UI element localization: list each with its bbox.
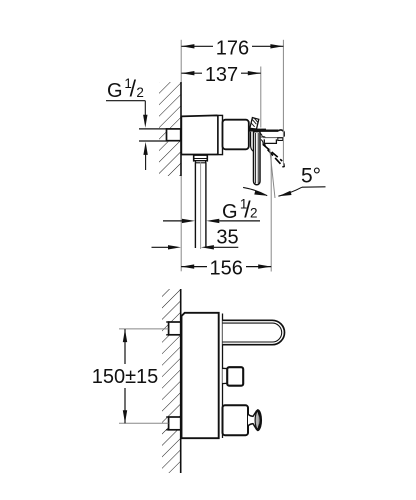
diverter knob [223,367,244,386]
nipple centerline [200,162,202,249]
pipe union fitting at wall [167,129,181,141]
trim ring [218,115,223,154]
lever blade (handle pointing to viewer) [254,132,261,185]
5° tilted line [270,149,275,199]
hose nipple pipes (down) [194,162,196,248]
ext line 176 right [282,40,284,164]
lever pivot bar [249,129,266,132]
G 1/2 label bottom (hose thread) [163,196,260,223]
5° reference line (vertical) / ext. line for 156 [270,155,272,272]
bottom inlet block [166,417,181,430]
wall hatching (top view) [159,82,181,176]
top inlet block [166,322,181,335]
dimension 176 [181,37,283,59]
dimension 35 [152,227,239,250]
svg-text:150±15: 150±15 [92,366,159,388]
ext line wall top [180,40,182,82]
G 1/2 label top left [106,76,148,170]
supply pipe G1/2 (left, into wall) [139,128,167,130]
ext line wall bottom [180,176,182,271]
wall line (top view) [180,82,182,176]
svg-text:5°: 5° [301,165,321,188]
wall line (side view) [180,289,182,473]
ext line 137 right [260,67,262,128]
loop handle (side) [223,320,285,344]
lever rotated 5° (dashed) [263,145,283,168]
dimension 137 [181,64,260,86]
lever neck [251,132,254,151]
svg-text:156: 156 [210,257,243,279]
rotated lever tip dash [283,163,286,167]
cover plate line [222,314,224,439]
cartridge housing (small cylinder) [223,120,249,150]
mixer body (large cylinder) [181,115,218,154]
shower outlet (bottom) [223,405,249,435]
svg-text:137: 137 [205,64,238,86]
svg-text:35: 35 [216,227,238,249]
mixer body (side) [182,313,219,438]
spout (to the right) [260,130,284,143]
svg-text:176: 176 [216,37,249,59]
spout root curls [260,133,266,138]
lever hinge (hatched section) [250,118,259,129]
pull knob (mushroom) [248,410,261,430]
5° leader and text [302,186,326,188]
shower hose connection collar (below body) [194,155,208,161]
5° dimension arcs with arrows [243,187,267,195]
dimension 156 [181,257,271,279]
wall hatching (side view) [162,289,181,473]
